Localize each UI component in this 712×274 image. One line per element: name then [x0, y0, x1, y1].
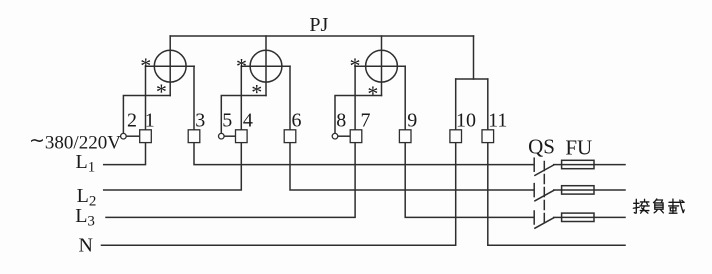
svg-text:7: 7	[361, 109, 371, 131]
meter element U1 current-coil chord	[146, 65, 195, 67]
wire terminal6 drop	[289, 66, 291, 130]
meter element U2 circle	[250, 50, 282, 82]
svg-text:*: *	[367, 81, 378, 106]
terminal 2 open contact	[121, 133, 127, 139]
wire L3 in	[106, 143, 355, 218]
wire fuse3 through and stub	[562, 216, 625, 218]
svg-text:FU: FU	[565, 136, 592, 160]
node terminal8 link	[338, 135, 351, 137]
svg-text:3: 3	[195, 109, 205, 131]
svg-text:*: *	[236, 53, 247, 78]
terminal box 9	[399, 130, 411, 143]
switch QS pole2 blade	[535, 190, 554, 200]
terminal 5 open contact	[219, 133, 225, 139]
wire fuse2 through and stub	[562, 189, 625, 191]
char 载	[669, 199, 685, 213]
wire QS pole1 to fuse	[554, 164, 562, 166]
terminal box 10	[450, 130, 462, 143]
meter element U3 circle	[366, 50, 398, 82]
char 负	[653, 199, 663, 213]
char 接	[633, 199, 649, 213]
svg-text:QS: QS	[528, 135, 555, 159]
wire tee drop to terminal 10	[455, 79, 457, 130]
svg-text:*: *	[350, 53, 361, 78]
wire N out	[488, 143, 625, 246]
wire PJ top bus	[170, 35, 473, 37]
wire N in	[102, 143, 456, 246]
svg-text:10: 10	[456, 109, 476, 131]
switch QS pole3 blade	[535, 218, 554, 228]
svg-text:4: 4	[243, 109, 253, 131]
terminal box 7	[350, 130, 362, 143]
wire U2 voltage link	[221, 96, 266, 134]
terminal 8 open contact	[332, 133, 338, 139]
wire U1 voltage link	[123, 96, 170, 134]
terminal box 11	[482, 130, 494, 143]
svg-text:N: N	[79, 235, 93, 257]
svg-text:L1: L1	[76, 151, 96, 176]
node terminal5 link	[224, 135, 236, 137]
fuse FU3 body	[562, 213, 594, 221]
svg-text:*: *	[251, 79, 262, 104]
svg-text:9: 9	[407, 109, 417, 131]
svg-text:2: 2	[127, 109, 137, 131]
wire terminal9 drop	[404, 66, 406, 130]
fuse FU2 body	[562, 186, 594, 194]
switch QS pole2 fixed tick	[533, 184, 535, 197]
terminal box 1	[140, 130, 152, 143]
terminal box 6	[284, 130, 296, 143]
wire terminal3 drop	[193, 66, 195, 130]
wire U3 voltage link	[335, 96, 382, 134]
label 接负载 (connect load) drawn as strokes	[633, 199, 684, 213]
meter element U3 voltage-coil vertical	[381, 36, 383, 96]
wire QS pole2 to fuse	[554, 189, 562, 191]
wire L1 out	[194, 143, 534, 165]
svg-text:*: *	[156, 79, 167, 104]
fuse FU1 body	[562, 160, 594, 168]
svg-text:11: 11	[488, 109, 507, 131]
wire QS pole3 to fuse	[554, 216, 562, 218]
terminal box 3	[188, 130, 200, 143]
wire L2 in	[104, 143, 242, 190]
meter element U1 circle	[154, 50, 186, 82]
wire voltage tee horizontal	[456, 78, 488, 80]
svg-text:8: 8	[336, 109, 346, 131]
node terminal2 link	[126, 135, 139, 137]
switch QS pole1 blade	[535, 165, 554, 175]
terminal box 4	[236, 130, 248, 143]
meter element U1 voltage-coil vertical	[169, 36, 171, 96]
wire L3 out	[405, 143, 534, 218]
svg-text:1: 1	[145, 109, 155, 131]
wire L2 out	[290, 143, 534, 190]
meter element U2 voltage-coil vertical	[265, 36, 267, 96]
wire terminal7 drop	[354, 66, 356, 130]
wire fuse1 through and stub	[562, 164, 625, 166]
svg-text:PJ: PJ	[309, 14, 328, 36]
wire terminal4 drop	[240, 66, 242, 130]
wire terminal1 drop	[145, 66, 147, 130]
wire L1 in	[104, 143, 146, 165]
switch QS pole1 fixed tick	[533, 158, 535, 171]
svg-text:*: *	[140, 53, 151, 78]
meter element U3 current-coil chord	[355, 65, 405, 67]
wire tee drop to terminal 11	[487, 79, 489, 130]
svg-text:6: 6	[292, 109, 302, 131]
switch QS pole3 fixed tick	[533, 211, 535, 224]
meter element U2 current-coil chord	[241, 65, 290, 67]
switch QS linkage dashed	[543, 162, 545, 224]
svg-text:5: 5	[222, 109, 232, 131]
wire bus drop to voltage tee	[473, 36, 475, 79]
